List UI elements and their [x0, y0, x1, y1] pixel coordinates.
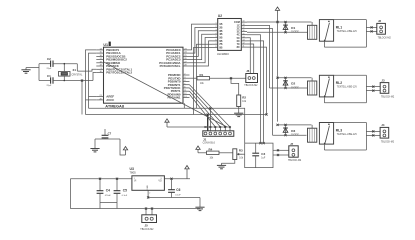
- svg-text:13: 13: [243, 40, 245, 42]
- svg-text:TEXTELL-KBE-12V: TEXTELL-KBE-12V: [337, 87, 358, 89]
- svg-text:J7: J7: [290, 142, 294, 146]
- svg-text:J1: J1: [203, 138, 207, 142]
- svg-text:C5: C5: [123, 189, 127, 193]
- svg-text:22pF: 22pF: [47, 85, 52, 87]
- svg-text:D3: D3: [291, 129, 295, 133]
- svg-text:C4: C4: [106, 189, 110, 193]
- svg-text:CONN-SIL6: CONN-SIL6: [203, 143, 216, 145]
- svg-text:3: 3: [161, 178, 162, 180]
- svg-text:15: 15: [243, 33, 245, 35]
- svg-text:16: 16: [243, 30, 245, 32]
- svg-text:J5: J5: [145, 224, 149, 228]
- svg-text:U1: U1: [103, 43, 108, 47]
- svg-text:14: 14: [243, 36, 245, 38]
- svg-text:3: 3: [216, 29, 217, 31]
- svg-text:C7: C7: [108, 131, 112, 135]
- svg-text:R4: R4: [209, 147, 213, 151]
- svg-text:X1: X1: [73, 68, 77, 72]
- svg-text:RL2: RL2: [336, 81, 342, 85]
- svg-text:C2: C2: [47, 57, 51, 61]
- svg-text:5: 5: [216, 36, 217, 38]
- svg-text:C6: C6: [176, 188, 180, 192]
- svg-text:TBLOCK-M2: TBLOCK-M2: [244, 85, 258, 87]
- svg-text:R3: R3: [239, 148, 243, 152]
- svg-text:GND: GND: [147, 185, 149, 190]
- svg-text:22pF: 22pF: [47, 68, 52, 70]
- svg-text:1: 1: [134, 178, 135, 180]
- svg-text:TBLOCK-M2: TBLOCK-M2: [140, 229, 154, 231]
- svg-text:TBLOCK-M2: TBLOCK-M2: [381, 97, 395, 99]
- svg-text:2: 2: [216, 26, 217, 28]
- svg-text:TBLOCK-M2: TBLOCK-M2: [288, 160, 302, 162]
- svg-text:ULN2803: ULN2803: [217, 52, 229, 56]
- svg-text:6: 6: [216, 40, 217, 42]
- svg-text:AVCC: AVCC: [106, 98, 115, 102]
- svg-text:12: 12: [243, 43, 245, 45]
- svg-text:470uF: 470uF: [105, 195, 112, 197]
- svg-text:J3: J3: [381, 78, 385, 82]
- svg-text:D2: D2: [291, 82, 295, 86]
- svg-text:11: 11: [243, 46, 245, 48]
- svg-text:RL3: RL3: [336, 128, 342, 132]
- svg-text:8: 8: [216, 46, 217, 48]
- svg-text:J6: J6: [246, 69, 250, 73]
- svg-text:D1: D1: [291, 26, 295, 30]
- svg-text:DIODE: DIODE: [291, 31, 299, 34]
- svg-text:0.1uF: 0.1uF: [122, 195, 128, 197]
- svg-text:8C: 8C: [237, 46, 240, 49]
- svg-text:U2: U2: [218, 14, 222, 18]
- svg-text:7: 7: [216, 43, 217, 45]
- svg-text:PC5/ADC5/SCL: PC5/ADC5/SCL: [160, 64, 181, 68]
- svg-text:TEXTELL-KBE-12V: TEXTELL-KBE-12V: [337, 31, 358, 33]
- svg-text:TEXTELL-KBE-12V: TEXTELL-KBE-12V: [337, 134, 358, 136]
- svg-text:ATMEGA8: ATMEGA8: [105, 103, 125, 108]
- svg-text:C1: C1: [47, 74, 51, 78]
- svg-text:TBLOCK-M2: TBLOCK-M2: [381, 142, 395, 144]
- svg-text:7805: 7805: [130, 171, 137, 175]
- svg-text:R1: R1: [200, 73, 204, 77]
- svg-text:J4: J4: [381, 123, 385, 127]
- svg-text:8B: 8B: [219, 47, 222, 50]
- svg-text:2: 2: [149, 193, 150, 195]
- svg-text:R2: R2: [242, 96, 246, 100]
- svg-text:1uF: 1uF: [261, 157, 266, 159]
- svg-text:17: 17: [243, 27, 245, 29]
- svg-text:CRYSTAL: CRYSTAL: [72, 74, 83, 77]
- svg-text:TBLOCK-M2: TBLOCK-M2: [378, 38, 392, 40]
- svg-text:10: 10: [243, 21, 245, 23]
- svg-text:J2: J2: [378, 19, 382, 23]
- svg-text:PB7/TOSC2/XTAL2: PB7/TOSC2/XTAL2: [106, 71, 132, 75]
- svg-text:C3: C3: [261, 152, 265, 156]
- svg-text:18: 18: [243, 24, 245, 26]
- svg-text:0.1uF: 0.1uF: [175, 195, 181, 197]
- svg-text:1: 1: [216, 23, 217, 25]
- svg-text:RL1: RL1: [336, 26, 342, 30]
- svg-text:4: 4: [216, 33, 217, 35]
